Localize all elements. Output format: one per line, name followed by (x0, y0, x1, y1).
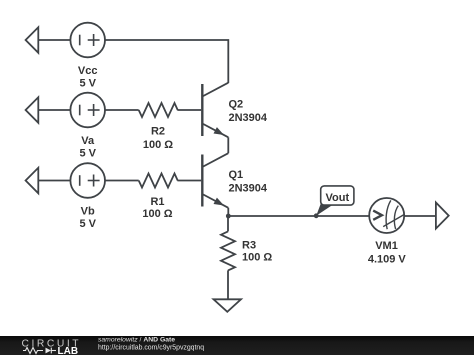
CircuitLab logo wordmark (22, 339, 82, 355)
wire R3 to ground (227, 270, 229, 299)
svg-text:2N3904: 2N3904 (229, 112, 268, 124)
wire Va to R2 (105, 109, 139, 111)
logo resistor zigzag (23, 348, 43, 354)
svg-text:2N3904: 2N3904 (229, 183, 268, 195)
terminal arrow T1 (Vcc input) (26, 27, 39, 53)
voltage source Va (70, 93, 105, 160)
wire R2 to Q2 base (177, 109, 201, 111)
voltage source Vb (70, 163, 105, 230)
wire Vb to R1 (105, 180, 139, 182)
node junction dot (226, 214, 231, 219)
svg-text:Q2: Q2 (229, 99, 244, 111)
transistor Q1 (2N3904 NPN) (202, 153, 268, 208)
svg-text:VM1: VM1 (375, 240, 398, 252)
wire Q2 emitter to Q1 collector (227, 137, 229, 153)
svg-text:samorelowitz / AND Gate: samorelowitz / AND Gate (98, 336, 175, 343)
wire T1 to Vcc (38, 39, 70, 41)
svg-text:R3: R3 (242, 240, 256, 252)
svg-text:R1: R1 (150, 196, 164, 208)
svg-text:Vout: Vout (325, 192, 349, 204)
terminal arrow T4 (output) (436, 203, 449, 229)
logo diode (46, 348, 57, 354)
footer bar (0, 336, 474, 355)
svg-text:4.109 V: 4.109 V (368, 253, 407, 265)
svg-text:http://circuitlab.com/c9yr5pvz: http://circuitlab.com/c9yr5pvzgqtnq (98, 344, 204, 351)
svg-text:100 Ω: 100 Ω (242, 252, 272, 264)
svg-text:100 Ω: 100 Ω (143, 139, 173, 151)
wire node down to R3 (227, 216, 229, 231)
resistor R2 (139, 103, 178, 151)
wire node to voltmeter (228, 215, 369, 217)
wire T3 to Vb (38, 180, 70, 182)
voltmeter VM1 (368, 198, 407, 265)
svg-text:Vb: Vb (81, 206, 95, 218)
wire R1 to Q1 base (177, 180, 201, 182)
voltage source Vcc (70, 23, 105, 90)
svg-text:100 Ω: 100 Ω (142, 208, 172, 220)
resistor R1 (139, 174, 178, 220)
terminal arrow T3 (Vb input) (26, 168, 39, 194)
ground (214, 299, 242, 312)
svg-text:5 V: 5 V (79, 147, 96, 159)
resistor R3 (221, 231, 272, 270)
svg-text:5 V: 5 V (79, 77, 96, 89)
svg-text:5 V: 5 V (79, 218, 96, 230)
wire Q1 emitter to output node (227, 208, 229, 216)
wire VM1 to output terminal (404, 215, 436, 217)
node Vout flag (314, 186, 354, 218)
svg-text:LAB: LAB (58, 346, 79, 355)
terminal arrow T2 (Va input) (26, 97, 39, 123)
transistor Q2 (2N3904 NPN) (202, 83, 268, 138)
svg-text:Q1: Q1 (229, 169, 244, 181)
wire Vcc to top rail corner and down to Q2 collector (105, 40, 228, 83)
svg-text:R2: R2 (151, 126, 165, 138)
attribution text (98, 336, 204, 351)
wire T2 to Va (38, 109, 70, 111)
svg-text:Va: Va (81, 135, 95, 147)
svg-text:Vcc: Vcc (78, 65, 98, 77)
